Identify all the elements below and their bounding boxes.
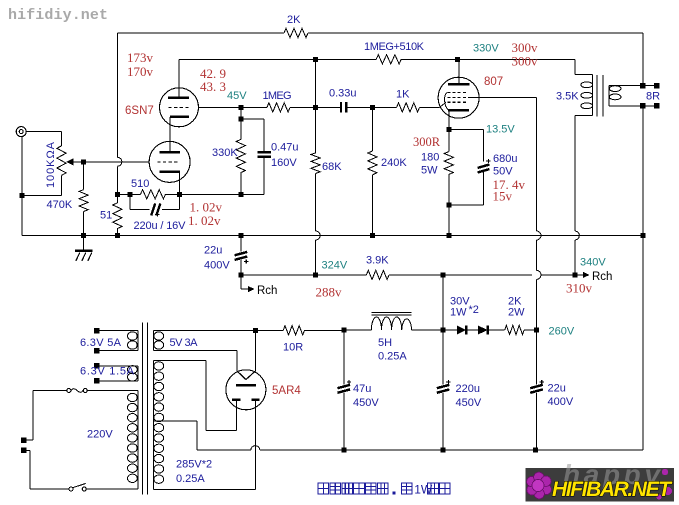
node [370,105,375,110]
svg-text:8R: 8R [646,91,660,103]
capacitor C-0.33u [340,102,342,113]
svg-text:5H: 5H [378,337,392,349]
resistor R-1MEG [267,103,290,112]
resistor R-3.9K [366,270,389,279]
resistor R-470K [83,162,85,190]
svg-text:450V: 450V [353,397,379,409]
resistor R-10R [283,326,304,335]
node [238,233,243,238]
svg-text:680u: 680u [493,153,517,165]
node [341,448,346,453]
transformer PT-6.3V1.5A [94,363,100,369]
resistor R-330K [236,139,245,172]
capacitor C-47u450V [343,330,345,385]
wire logo [525,468,674,502]
node pot-ground [20,193,25,198]
node 330V-node [455,57,460,62]
wire pot-wiper-arrow [72,161,84,163]
wire [315,174,317,232]
wire [26,449,30,451]
svg-text:47u: 47u [353,383,371,395]
resistor R-1K [397,103,420,112]
node [446,233,451,238]
wire plateL-path [206,430,236,432]
wire plate-row [179,58,376,60]
svg-text:6.3V 5A: 6.3V 5A [80,337,122,349]
svg-text:260V: 260V [549,326,575,338]
node [253,328,258,333]
svg-text:173v: 173v [127,50,154,65]
svg-text:180: 180 [421,152,439,164]
node [641,233,646,238]
node [313,272,318,277]
svg-text:1K: 1K [396,89,410,101]
transformer OPT-core [596,75,598,117]
svg-text:0.47u: 0.47u [271,142,299,154]
svg-text:470K: 470K [47,199,73,211]
wire screen-drop [536,97,538,231]
resistor R-240K [371,107,373,151]
svg-text:1MEG: 1MEG [263,90,292,102]
wire rch-arrow-left [240,275,242,289]
svg-text:1. 02v: 1. 02v [188,213,221,228]
node [341,328,346,333]
wire wiper-to-grid [72,161,150,163]
svg-text:340V: 340V [580,257,606,269]
svg-text:0.25A: 0.25A [176,473,205,485]
node [128,192,133,197]
node [446,203,451,208]
svg-text:6.3V 1.5A: 6.3V 1.5A [80,366,135,378]
node [534,328,539,333]
resistor R-2K2W [505,325,524,334]
wire feedback-drop [642,33,644,83]
node [572,272,577,277]
svg-text:0.33u: 0.33u [329,88,357,100]
wire [26,131,61,133]
svg-text:5AR4: 5AR4 [272,385,301,397]
node [115,192,120,197]
diode D1-30V [457,326,466,335]
capacitor C-220u450V [442,330,444,385]
svg-text:13.5V: 13.5V [486,124,515,136]
svg-text:330V: 330V [473,43,499,55]
rectifier 5AR4 [226,370,266,410]
node [446,127,451,132]
wire [117,32,284,34]
svg-text:450V: 450V [456,397,482,409]
svg-text:43. 3: 43. 3 [200,79,226,94]
pentode 807 [438,77,479,118]
node [441,328,446,333]
node [441,272,446,277]
wire rch-arrow-right [575,274,585,276]
node [370,233,375,238]
svg-text:1MEG+510K: 1MEG+510K [364,41,425,53]
capacitor C-22u400V-R [536,330,538,385]
svg-text:220u / 16V: 220u / 16V [134,220,187,232]
resistor R-2K [284,28,308,37]
capacitor C-0.47u [241,118,264,120]
node [313,57,318,62]
svg-text:50V: 50V [493,166,513,178]
resistor R-1MEG+510K [376,55,401,64]
wire hv-bottom [153,489,255,491]
resistor R-180-5W [448,130,450,152]
svg-text:Rch: Rch [257,285,277,297]
capacitor C-680u [478,165,490,168]
transformer OPT-secondary [608,86,610,106]
wire [442,275,444,330]
svg-text:22u: 22u [204,245,222,257]
wire drive-row [199,106,268,108]
wire [21,137,23,236]
svg-text:3.9K: 3.9K [366,255,389,267]
transformer PT-HV285V [152,361,154,490]
wire [254,330,256,371]
svg-text:6SN7: 6SN7 [125,105,154,117]
svg-text:hifidiy.net: hifidiy.net [8,7,108,24]
node [238,192,243,197]
svg-text:45V: 45V [227,90,247,102]
svg-text:0.25A: 0.25A [378,351,407,363]
svg-text:300v: 300v [512,54,539,69]
resistor R-510 [141,190,166,199]
resistor R-51 [116,194,118,203]
svg-text:310v: 310v [566,281,593,296]
svg-text:Rch: Rch [592,271,612,283]
wire [449,129,484,131]
svg-text:160V: 160V [271,157,297,169]
switch S1 [69,487,73,491]
wire hv-ct [153,420,197,422]
transformer PT-220V [87,390,138,392]
wire [116,33,118,157]
svg-text:807: 807 [484,76,503,88]
svg-text:3.5K: 3.5K [556,91,579,103]
svg-text:324V: 324V [322,260,348,272]
node [238,117,243,122]
wire bottom-rail [197,449,251,451]
ground [83,236,85,251]
node [313,105,318,110]
node input-jack [16,127,26,137]
svg-text:100KΩA: 100KΩA [45,141,57,188]
node wiper-junction [81,159,86,164]
svg-text:2W: 2W [508,307,525,319]
svg-text:5W: 5W [421,165,438,177]
svg-text:15v: 15v [493,189,513,204]
wire [315,59,317,153]
svg-text:51: 51 [100,210,112,222]
node [238,105,243,110]
node gnd-junction [81,233,86,238]
capacitor C-220u16V [129,194,131,209]
transformer PT-6.3V5A [94,328,100,334]
inductor choke-5H [371,311,411,313]
svg-text:400V: 400V [204,260,230,272]
wire cathode-row [117,193,140,195]
svg-text:300R: 300R [413,135,441,149]
wire [240,107,242,139]
node [238,272,243,277]
node [441,448,446,453]
node mains-plug [21,437,27,443]
triode 6SN7-upper [160,88,199,127]
svg-text:400V: 400V [548,396,574,408]
transformer OPT-primary [574,59,576,74]
wire [26,439,33,441]
wire speaker-return [642,109,644,451]
svg-text:HIFIBAR.NET: HIFIBAR.NET [552,478,673,501]
svg-text:285V*2: 285V*2 [176,459,212,471]
triode 6SN7-lower [149,141,190,182]
node [177,192,182,197]
wire note-cjk [318,483,329,494]
wire filter-row [153,329,283,331]
transformer PT-5V3A [152,330,154,350]
svg-text:330K: 330K [212,147,238,159]
node [533,448,538,453]
wire bplus-rail [241,274,367,276]
diode D2-30V [478,326,487,335]
svg-text:5V 3A: 5V 3A [170,337,199,349]
wire [236,351,238,372]
wire ground-rail [22,235,643,237]
svg-text:510: 510 [131,178,149,190]
wire screen-wire [468,96,536,98]
svg-text:170v: 170v [127,64,154,79]
resistor R-68K [311,153,320,174]
svg-text:2K: 2K [287,14,301,26]
potentiometer VR-100KohmA [57,146,66,176]
svg-text:22u: 22u [548,383,566,395]
svg-text:240K: 240K [381,157,407,169]
svg-text:*2: *2 [469,304,479,316]
node [115,233,120,238]
capacitor C-22u400V-L [240,236,242,252]
svg-text:1W: 1W [450,307,467,319]
node speaker-terminals [640,83,646,89]
svg-text:288v: 288v [316,285,343,300]
svg-text:220u: 220u [456,383,480,395]
svg-text:10R: 10R [283,342,303,354]
fuse F1 [33,390,67,392]
transformer PT-core [142,323,144,495]
svg-text:68K: 68K [322,161,342,173]
svg-text:220V: 220V [87,429,113,441]
